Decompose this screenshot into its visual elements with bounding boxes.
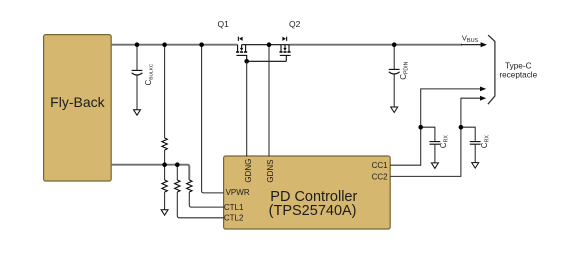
node: junction dot on lower line at R3	[175, 162, 180, 167]
Q1 body arrow	[241, 45, 243, 49]
svg-text:CC2: CC2	[372, 172, 389, 181]
svg-text:(TPS25740A): (TPS25740A)	[269, 203, 357, 219]
resistor R3 (to CTL2)	[175, 165, 224, 218]
ground (arrow) below CPDIN	[391, 107, 398, 113]
node: junction dot rail/R1	[162, 42, 167, 47]
svg-text:GDNS: GDNS	[266, 159, 275, 182]
Q1 source lead	[245, 45, 247, 52]
node: junction dot CC2/CRX2	[459, 125, 464, 130]
Q2 gate tap	[285, 55, 287, 61]
ground (arrow) below R2	[161, 210, 168, 216]
svg-text:CTL1: CTL1	[224, 203, 244, 212]
wire: VBUS top rail from Fly-Back to Q1	[111, 44, 238, 46]
Q2 source lead	[280, 45, 282, 52]
wire: GDNS sense to controller	[268, 45, 270, 157]
Q1 gate plate	[236, 54, 247, 56]
PD controller U1 (TPS25740A)	[224, 156, 391, 229]
svg-text:Q1: Q1	[218, 19, 230, 29]
Q2 channel contacts	[279, 51, 282, 53]
wire: CC2 from controller with arrow to receptacle	[390, 96, 486, 177]
body diode of Q2	[282, 37, 286, 41]
svg-text:CC1: CC1	[372, 161, 389, 170]
node: junction dot rail/CBULKC	[135, 42, 140, 47]
node: junction dot rail/VPWR	[199, 42, 204, 47]
wire: rail segment Q1 to Q2 (common source)	[242, 44, 289, 46]
Type-C receptacle bracket	[488, 35, 495, 104]
svg-text:Q2: Q2	[289, 19, 301, 29]
wire: GDNG to controller	[246, 61, 248, 156]
node: junction dot rail/CPDIN	[392, 42, 397, 47]
Q1 channel contacts	[236, 51, 239, 53]
svg-text:Fly-Back: Fly-Back	[50, 94, 105, 110]
Q1 drain lead	[237, 45, 239, 52]
capacitor CRX2 on CC2	[461, 127, 491, 162]
capacitor CBULKC	[132, 45, 155, 110]
wire: gate link Q1-Q2	[247, 60, 287, 62]
svg-text:CPDIN: CPDIN	[399, 61, 410, 79]
resistor R4 (to CTL1)	[187, 180, 224, 207]
svg-text:CBULKC: CBULKC	[144, 63, 155, 85]
wire: VPWR feed	[202, 45, 224, 193]
wire: VBUS arrow to receptacle	[461, 42, 487, 47]
ground (arrow) below CRX2	[472, 163, 479, 169]
svg-text:VBUS: VBUS	[462, 33, 479, 44]
resistor R2 lower (divider bottom)	[162, 165, 167, 210]
node: junction dot on lower line at R2	[162, 162, 167, 167]
resistor R1 upper (divider top)	[162, 45, 167, 164]
svg-text:CRX: CRX	[439, 135, 450, 149]
transistor Q2	[279, 37, 290, 62]
wire: Fly-Back lower output line	[111, 165, 189, 180]
node: junction dot CC1/CRX1	[418, 125, 423, 130]
ground (arrow) below CBULKC	[134, 110, 141, 116]
Q1 gate tap	[246, 55, 248, 61]
svg-text:CRX: CRX	[480, 135, 491, 149]
capacitor CPDIN	[389, 45, 410, 107]
node: junction dot rail/GDNS	[267, 42, 272, 47]
Fly-Back block	[44, 35, 112, 181]
Q2 drain lead	[288, 45, 290, 52]
svg-text:Type-C: Type-C	[505, 62, 531, 71]
svg-text:CTL2: CTL2	[224, 213, 244, 222]
transistor Q1	[236, 37, 247, 62]
body diode of Q1	[238, 37, 239, 41]
ground (arrow) below CRX1	[431, 163, 438, 169]
wire: rail from Q2 to VBUS arrow	[289, 44, 462, 46]
svg-text:receptacle: receptacle	[499, 71, 537, 80]
wire: CC1 from controller with arrow to receptacle	[390, 87, 486, 166]
capacitor CRX1 on CC1	[421, 127, 450, 163]
node: junction dot gate/GDNG	[244, 59, 249, 64]
svg-text:VPWR: VPWR	[226, 188, 250, 197]
Q2 body arrow	[284, 45, 286, 49]
Q2 gate plate	[280, 54, 291, 56]
svg-text:GDNG: GDNG	[244, 159, 253, 183]
